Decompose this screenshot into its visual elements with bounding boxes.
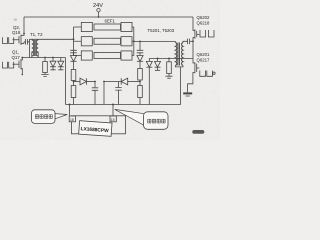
wire lamp stubs right — [132, 27, 134, 56]
text current sense glyphs — [35, 115, 52, 119]
wire top 24V bus — [24, 16, 193, 18]
diode left pair 2 — [60, 58, 62, 62]
lamp row 3 right connector — [121, 51, 132, 60]
wire right lamp bus to transformer — [134, 40, 176, 42]
wire right lamp bus — [133, 27, 135, 56]
node rail D tap — [52, 57, 54, 59]
wire transformer winding bottoms — [32, 52, 38, 58]
text voltage sense glyphs — [148, 119, 165, 123]
ground right rail — [166, 76, 173, 78]
wire Q6202 source to Q6201 drain — [193, 41, 195, 63]
node right bus wire — [133, 41, 135, 43]
node bus to pin15 — [112, 104, 114, 106]
capacitor left ballast — [70, 50, 77, 53]
capacitor right ballast — [139, 41, 141, 50]
lamp row 3 tube — [94, 53, 121, 59]
wire lamp stubs left — [74, 27, 82, 56]
24V supply terminal — [97, 9, 100, 12]
capacitor left feedback — [94, 82, 96, 88]
capacitor coupling right — [188, 39, 190, 45]
resistor right chain 2 — [138, 86, 143, 98]
wire rail corner down to bottom bus — [65, 58, 67, 105]
lamp row 2 right connector — [121, 37, 132, 46]
resistor right chain 1 — [138, 69, 143, 81]
wire cap node down — [29, 39, 31, 57]
op-amp U1 LX1688CPW outer box — [72, 116, 126, 134]
lamp row 1 right connector — [121, 22, 132, 31]
callout current sense — [32, 110, 68, 124]
wire transformer secondary top to left bus — [30, 38, 74, 40]
wire left lamp bus — [73, 27, 75, 56]
node right feedback — [103, 81, 105, 83]
diode right rail 1 — [148, 58, 150, 61]
wire primary bottom rail — [22, 57, 65, 59]
resistor sense left — [44, 58, 46, 62]
node right chain top — [139, 41, 141, 43]
pin 15 box — [110, 116, 116, 122]
wire right secondary bottom rail — [149, 57, 193, 59]
callout voltage sense — [115, 109, 168, 129]
transistor Q2 Q18 — [20, 35, 22, 46]
transistor Q6201 — [194, 62, 196, 73]
transformer T5201 T5203 windings — [175, 43, 183, 66]
lamp row 2 left connector — [81, 37, 92, 46]
wire T5201 secondary top — [174, 41, 176, 42]
capacitor coupling left — [25, 39, 27, 45]
connector gate Q6202 — [200, 30, 206, 37]
stray mark — [14, 19, 18, 21]
connector gate Q6201 — [200, 71, 206, 77]
wire T5201 bottoms to bus riser — [175, 66, 183, 67]
node transformer wire to bus — [73, 38, 75, 40]
resistor left chain 2 — [71, 86, 76, 98]
node Q6202 source — [192, 40, 194, 42]
resistor left chain 1 — [71, 70, 76, 81]
diode left ballast — [70, 56, 76, 62]
label box LX1688CPW — [79, 121, 112, 137]
node 24V junction — [98, 16, 100, 18]
resistor right rail — [168, 58, 170, 61]
lamp row 1 left connector — [81, 22, 92, 31]
node left feedback — [94, 81, 96, 83]
diode right ballast — [137, 56, 143, 62]
wire bus riser right — [180, 67, 182, 105]
wire bottom bus — [66, 104, 181, 106]
diode right feedback — [120, 78, 122, 85]
node right chain mid — [139, 81, 141, 83]
lamp row 2 tube — [94, 38, 121, 44]
transformer T5201 core — [178, 43, 180, 66]
pin 18 box — [69, 116, 75, 122]
diode right rail 2 — [157, 58, 159, 61]
node Q1 source end — [22, 74, 24, 76]
node rail R tap — [44, 57, 46, 59]
node Q2 drain — [23, 33, 25, 35]
transistor Q6202 — [194, 29, 196, 39]
transformer T1 T2 windings — [32, 40, 38, 56]
lamp row 1 tube — [94, 24, 121, 30]
ground Q6201 source — [183, 92, 192, 94]
node bus to pin18 — [69, 104, 71, 106]
lamp row 3 left connector — [81, 51, 92, 60]
wire left drop to Q2 drain — [23, 17, 25, 34]
connector gate Q2 — [3, 37, 8, 43]
wire right drop to Q6202 drain — [193, 17, 195, 31]
wire right feedback node — [103, 82, 105, 105]
connector gate Q1 — [3, 62, 8, 68]
node left chain mid — [73, 81, 75, 83]
capacitor right feedback — [118, 82, 120, 88]
transistor Q1 Q17 — [20, 59, 22, 70]
transformer T1 T2 core — [34, 40, 36, 56]
wire T5201 primary top to cap — [183, 41, 188, 42]
watermark dash — [192, 130, 204, 134]
node rail resistor tap — [168, 58, 170, 60]
node Q1 drain on wire — [21, 57, 23, 59]
diode left feedback — [74, 81, 81, 83]
diode left pair 1 — [52, 58, 54, 62]
